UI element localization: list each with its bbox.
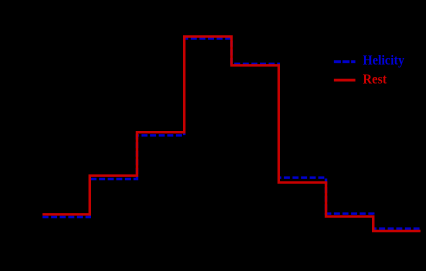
legend rest sample line	[334, 79, 356, 82]
svg-text:Helicity: Helicity	[363, 53, 405, 68]
legend helicity sample line	[334, 60, 356, 63]
helicity histogram (blue dashed step line)	[43, 39, 421, 229]
svg-text:Rest: Rest	[363, 72, 387, 87]
rest histogram (red solid step line)	[43, 37, 421, 232]
